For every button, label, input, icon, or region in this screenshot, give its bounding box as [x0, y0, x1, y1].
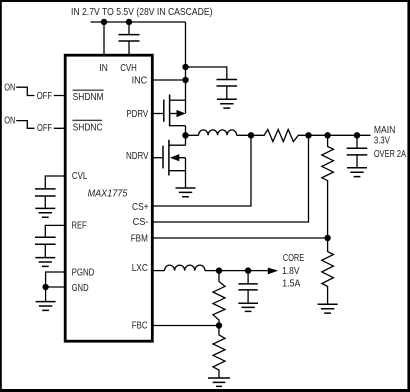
- capacitor C3 (main output): [356, 135, 358, 167]
- label CORE 1.8V 1.5A: [282, 253, 304, 289]
- svg-text:REF: REF: [72, 221, 87, 232]
- svg-text:FBM: FBM: [131, 233, 148, 244]
- ground (Q2 source): [176, 188, 196, 197]
- node junction CS+ tap: [248, 132, 254, 138]
- ground (input bypass): [217, 99, 237, 108]
- node junction FBM: [324, 235, 330, 241]
- svg-text:CS-: CS-: [133, 217, 149, 228]
- wire IN drop: [103, 22, 105, 55]
- svg-text:PGND: PGND: [72, 268, 95, 279]
- ground (core output cap): [238, 303, 258, 311]
- inductor L1 (main): [186, 130, 252, 135]
- wire input top rail: [91, 21, 186, 23]
- label MAIN 3.3V OVER 2A: [374, 125, 406, 160]
- resistor R4 (core divider top): [213, 271, 225, 326]
- pin SHDNM: [73, 90, 104, 103]
- arrow core output: [268, 268, 278, 275]
- svg-text:MAX1775: MAX1775: [88, 188, 128, 200]
- wire bypass branch: [186, 67, 227, 80]
- wire switch SHDNM: [16, 87, 65, 95]
- node junction rail-IN: [101, 19, 107, 25]
- capacitor C2 (input bypass): [217, 80, 238, 87]
- capacitor C6 (core output): [247, 271, 249, 303]
- svg-text:CVL: CVL: [72, 171, 88, 182]
- ground (CVL cap): [35, 208, 55, 217]
- ground (main output cap): [347, 168, 367, 177]
- node junction core cap: [245, 267, 251, 273]
- wire bypass cap stem: [226, 86, 228, 99]
- svg-text:ON: ON: [4, 116, 15, 127]
- wire LXC: [152, 270, 165, 272]
- wire FBC: [152, 325, 219, 327]
- resistor R3 (main divider bottom): [322, 238, 334, 304]
- node junction FB divider: [324, 132, 330, 138]
- node junction FBC: [216, 322, 222, 328]
- svg-text:CVH: CVH: [120, 63, 137, 74]
- pin SHDNC: [73, 120, 103, 133]
- wire INC: [152, 79, 186, 81]
- wire CS+ route: [152, 135, 251, 206]
- svg-text:PDRV: PDRV: [126, 109, 148, 120]
- wire CVH stem: [128, 22, 130, 55]
- capacitor C4 (CVL): [35, 189, 56, 196]
- transistor Q1 P-channel MOSFET: [152, 95, 186, 136]
- svg-text:OVER 2A: OVER 2A: [374, 149, 406, 160]
- wire CVL: [45, 176, 65, 208]
- svg-text:IN 2.7V TO 5.5V (28V IN CASCAD: IN 2.7V TO 5.5V (28V IN CASCADE): [71, 6, 213, 18]
- resistor R2 (main divider top): [322, 135, 334, 238]
- node junction rail-CVH: [126, 19, 132, 25]
- node junction main output cap: [354, 132, 360, 138]
- resistor R5 (core divider bottom): [213, 326, 225, 378]
- svg-text:MAIN: MAIN: [374, 125, 396, 136]
- svg-text:FBC: FBC: [132, 320, 148, 331]
- ground (PGND GND): [36, 302, 56, 311]
- svg-text:LXC: LXC: [132, 263, 148, 274]
- svg-text:ON: ON: [4, 82, 15, 93]
- resistor R1 (current sense): [251, 130, 371, 142]
- capacitor C1 (CVH): [119, 35, 140, 41]
- svg-text:1.5A: 1.5A: [282, 279, 300, 290]
- wire PGND: [46, 272, 65, 287]
- node junction CS- tap: [305, 132, 311, 138]
- svg-text:CS+: CS+: [132, 202, 149, 213]
- transistor Q2 N-channel MOSFET: [152, 135, 186, 187]
- wire switch SHDNC: [16, 121, 65, 129]
- svg-text:OFF: OFF: [37, 91, 52, 102]
- svg-text:SHDNC: SHDNC: [73, 122, 103, 133]
- svg-text:GND: GND: [72, 283, 89, 294]
- svg-text:SHDNM: SHDNM: [73, 92, 104, 103]
- node junction INC: [182, 77, 188, 83]
- node junction PGND-GND: [42, 284, 48, 290]
- ground (main divider): [318, 304, 338, 313]
- wire main input vertical: [185, 22, 187, 113]
- ground (REF cap): [35, 258, 55, 267]
- inductor L2 (core): [165, 265, 220, 271]
- node LX (main switch node): [182, 132, 188, 138]
- svg-text:1.8V: 1.8V: [282, 266, 300, 277]
- svg-text:OFF: OFF: [37, 123, 52, 134]
- op-amp U1 MAX1775 IC box: [65, 55, 152, 341]
- svg-text:INC: INC: [132, 76, 148, 87]
- wire REF: [45, 225, 65, 257]
- node junction core divider: [216, 267, 222, 273]
- svg-text:NDRV: NDRV: [126, 151, 149, 162]
- capacitor C5 (REF): [35, 237, 56, 244]
- svg-text:IN: IN: [99, 63, 108, 74]
- wire core output: [219, 270, 269, 272]
- svg-text:3.3V: 3.3V: [374, 136, 390, 147]
- wire FBM route: [152, 237, 328, 239]
- wire CS- route: [152, 135, 309, 222]
- node junction bypass branch: [182, 64, 188, 70]
- wire GND: [46, 287, 65, 301]
- svg-text:CORE: CORE: [283, 253, 304, 264]
- ground (core divider): [208, 378, 230, 386]
